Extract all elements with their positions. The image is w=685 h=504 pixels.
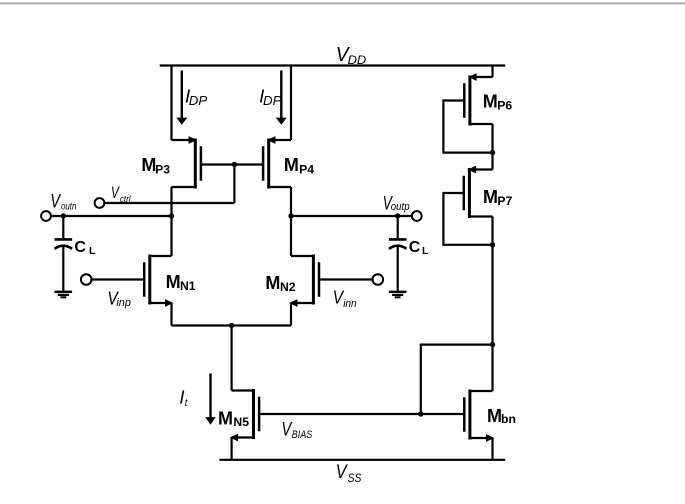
svg-text:outn: outn — [61, 202, 77, 213]
svg-text:P6: P6 — [497, 99, 512, 113]
svg-text:inp: inp — [116, 297, 130, 309]
svg-text:DP: DP — [189, 93, 208, 108]
svg-text:P3: P3 — [155, 162, 170, 176]
svg-text:M: M — [218, 408, 233, 428]
svg-text:M: M — [166, 272, 181, 292]
svg-text:M: M — [265, 273, 280, 293]
svg-text:M: M — [284, 155, 299, 175]
svg-text:N2: N2 — [280, 280, 296, 294]
svg-text:ctrl: ctrl — [120, 194, 131, 205]
svg-text:DP: DP — [263, 93, 282, 108]
svg-text:M: M — [483, 92, 498, 112]
svg-text:M: M — [483, 187, 498, 207]
svg-text:L: L — [89, 245, 96, 257]
svg-text:N5: N5 — [233, 415, 249, 429]
svg-text:inn: inn — [343, 298, 356, 310]
svg-text:P7: P7 — [497, 194, 512, 208]
svg-text:C: C — [409, 239, 421, 256]
svg-text:L: L — [422, 245, 429, 257]
svg-text:SS: SS — [348, 471, 362, 485]
svg-text:V: V — [50, 191, 61, 213]
svg-text:bn: bn — [501, 412, 516, 426]
svg-text:C: C — [74, 239, 86, 256]
svg-text:outp: outp — [391, 201, 410, 213]
svg-text:P4: P4 — [299, 162, 314, 176]
svg-text:BIAS: BIAS — [292, 429, 313, 441]
svg-text:N1: N1 — [180, 279, 196, 293]
svg-text:M: M — [487, 406, 502, 426]
svg-text:DD: DD — [348, 55, 367, 67]
